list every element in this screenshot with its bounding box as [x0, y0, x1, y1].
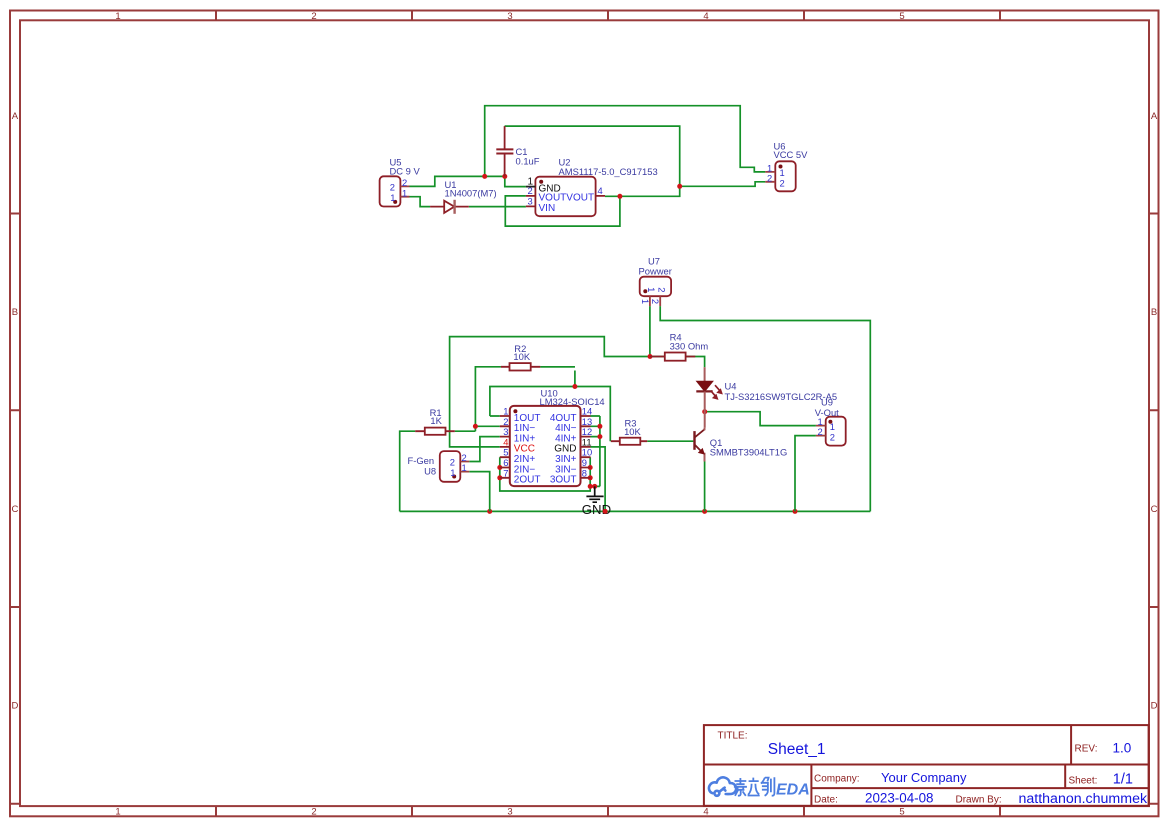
- regulator U2 AMS1117: [526, 156, 658, 216]
- svg-text:2: 2: [311, 807, 316, 818]
- resistor R1: [415, 407, 455, 435]
- transistor Q1: [695, 428, 788, 462]
- junction U10 ground pins: [497, 424, 602, 489]
- svg-text:AMS1117-5.0_C917153: AMS1117-5.0_C917153: [559, 166, 658, 177]
- wire U7 pin2 to GND bus: [660, 306, 870, 511]
- svg-text:3: 3: [507, 11, 512, 22]
- svg-text:EDA: EDA: [776, 782, 810, 799]
- svg-text:2: 2: [830, 431, 835, 442]
- svg-text:2023-04-08: 2023-04-08: [865, 791, 934, 806]
- svg-text:Drawn By:: Drawn By:: [956, 795, 1002, 806]
- svg-text:V-Out: V-Out: [815, 407, 839, 418]
- resistor R4: [650, 332, 708, 361]
- svg-text:C: C: [1151, 504, 1158, 515]
- svg-text:10K: 10K: [513, 351, 530, 362]
- svg-text:Sheet:: Sheet:: [1069, 776, 1098, 787]
- diode U1 1N4007(M7): [430, 179, 497, 214]
- wire U8 pin1 to bus: [469, 472, 489, 512]
- svg-text:4: 4: [598, 185, 603, 196]
- svg-text:4: 4: [703, 807, 708, 818]
- svg-text:10K: 10K: [624, 426, 641, 437]
- svg-text:2: 2: [390, 182, 395, 193]
- wire LED to Q1 collector and U9 pin1: [705, 412, 816, 426]
- logo glyph chuang: [761, 777, 775, 796]
- connector U6: [765, 141, 808, 192]
- svg-text:Your Company: Your Company: [881, 770, 967, 785]
- svg-text:LM324-SOIC14: LM324-SOIC14: [540, 396, 605, 407]
- svg-text:2: 2: [818, 426, 823, 437]
- svg-text:D: D: [1151, 701, 1158, 712]
- svg-text:U8: U8: [424, 465, 436, 476]
- svg-text:2: 2: [311, 11, 316, 22]
- svg-text:2: 2: [657, 287, 668, 292]
- wire R3 to Q1 base: [647, 440, 693, 442]
- svg-text:2: 2: [780, 177, 785, 188]
- svg-text:D: D: [11, 701, 18, 712]
- svg-text:7: 7: [503, 467, 508, 478]
- svg-text:330 Ohm: 330 Ohm: [670, 341, 709, 352]
- svg-text:1: 1: [115, 807, 120, 818]
- zone labels right: [1151, 111, 1158, 712]
- zone labels bottom: [115, 807, 904, 818]
- svg-text:2: 2: [450, 457, 455, 468]
- svg-text:2: 2: [528, 185, 533, 196]
- svg-text:1: 1: [640, 299, 651, 304]
- ground symbol: [586, 486, 603, 502]
- svg-text:natthanon.chummek: natthanon.chummek: [1019, 791, 1148, 807]
- svg-text:DC 9 V: DC 9 V: [390, 165, 421, 176]
- svg-text:1N4007(M7): 1N4007(M7): [445, 188, 497, 199]
- svg-text:U9: U9: [821, 397, 833, 408]
- svg-text:2: 2: [767, 173, 772, 184]
- junction top GND: [482, 174, 507, 179]
- title block frame: [704, 725, 1149, 806]
- connector U7: [639, 256, 672, 307]
- svg-text:F-Gen: F-Gen: [408, 455, 435, 466]
- svg-text:U4: U4: [725, 380, 737, 391]
- svg-text:1: 1: [462, 462, 467, 473]
- LED U4: [696, 367, 837, 428]
- svg-text:1.0: 1.0: [1113, 741, 1132, 756]
- svg-text:1: 1: [646, 287, 657, 292]
- junction VOUT: [617, 184, 682, 199]
- svg-text:4: 4: [703, 11, 708, 22]
- svg-text:REV:: REV:: [1075, 744, 1098, 755]
- svg-text:C: C: [11, 504, 18, 515]
- junction VCC loop: [648, 354, 653, 359]
- EDA logo cloud: [709, 777, 736, 795]
- svg-text:VCC 5V: VCC 5V: [774, 149, 809, 160]
- junction feedback: [473, 384, 578, 429]
- junction GND bus: [487, 509, 797, 514]
- svg-text:1: 1: [115, 11, 120, 22]
- svg-text:3OUT: 3OUT: [550, 475, 577, 486]
- svg-text:1: 1: [402, 187, 407, 198]
- svg-text:Powwer: Powwer: [639, 266, 672, 277]
- zone labels top: [115, 11, 904, 22]
- wire U9 pin2 to bus: [795, 436, 816, 512]
- svg-text:2OUT: 2OUT: [514, 475, 541, 486]
- svg-text:3: 3: [507, 807, 512, 818]
- wire net VOUT loop: [505, 126, 766, 226]
- svg-text:1: 1: [450, 467, 455, 478]
- wire GND bus: [400, 510, 871, 512]
- wire U10 pins 5 6 7 ground: [500, 416, 600, 491]
- svg-text:SMMBT3904LT1G: SMMBT3904LT1G: [710, 446, 787, 457]
- svg-text:5: 5: [899, 807, 904, 818]
- wire U8 pin2 to 1IN+: [469, 437, 500, 462]
- svg-text:0.1uF: 0.1uF: [516, 156, 540, 167]
- svg-text:VOUTVOUT: VOUTVOUT: [539, 193, 595, 204]
- junction pin11 on bus: [603, 509, 608, 514]
- wire U5 pin1 to diode: [410, 197, 431, 207]
- logo glyph li: [748, 778, 760, 796]
- wire R2 right to 4IN: [540, 366, 575, 368]
- wire U10 pin11 to bus: [591, 447, 606, 512]
- svg-text:VIN: VIN: [539, 203, 556, 214]
- svg-text:2: 2: [650, 299, 661, 304]
- resistor R2: [501, 343, 540, 370]
- svg-text:8: 8: [582, 467, 587, 478]
- svg-text:1/1: 1/1: [1113, 772, 1133, 788]
- wire R1 left to bus: [400, 431, 416, 511]
- wire diode to U2 VIN: [469, 206, 526, 208]
- svg-text:Sheet_1: Sheet_1: [768, 741, 826, 758]
- wire net top GND loop: [410, 106, 766, 187]
- svg-text:1K: 1K: [430, 415, 442, 426]
- wire VCC loop U7pin1-R4-U10pin4: [450, 306, 705, 447]
- zone labels left: [11, 111, 18, 712]
- svg-text:1: 1: [390, 192, 395, 203]
- connector U9: [815, 397, 846, 446]
- svg-text:TITLE:: TITLE:: [718, 731, 748, 742]
- title block texts: [718, 731, 1148, 808]
- svg-text:5: 5: [899, 11, 904, 22]
- svg-text:Company:: Company:: [814, 774, 860, 785]
- svg-text:Date:: Date:: [814, 795, 838, 806]
- logo glyph jia: [734, 778, 747, 796]
- svg-text:A: A: [12, 111, 19, 122]
- junction LED node: [702, 409, 707, 414]
- opamp U10 LM324: [500, 388, 605, 487]
- capacitor C1: [496, 126, 539, 176]
- svg-text:B: B: [12, 307, 18, 318]
- resistor R3: [611, 418, 647, 445]
- wire 1OUT-R2-R3 feedback: [455, 367, 611, 441]
- connector U8: [408, 451, 470, 482]
- svg-text:3: 3: [528, 196, 533, 207]
- svg-text:B: B: [1151, 307, 1157, 318]
- wire Q1 emitter to bus: [704, 461, 706, 512]
- connector U5: [380, 156, 421, 206]
- svg-text:A: A: [1151, 111, 1158, 122]
